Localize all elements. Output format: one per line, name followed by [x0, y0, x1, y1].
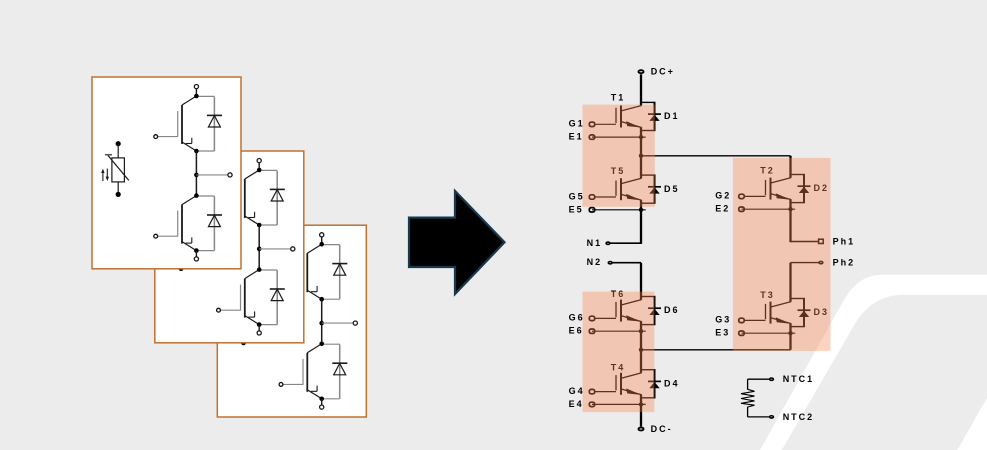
- svg-text:D1: D1: [664, 111, 680, 121]
- svg-text:NTC2: NTC2: [783, 412, 815, 422]
- svg-text:E6: E6: [569, 326, 584, 336]
- svg-text:E1: E1: [569, 132, 584, 142]
- svg-text:G3: G3: [715, 315, 731, 325]
- svg-text:D6: D6: [664, 305, 680, 315]
- svg-text:Ph2: Ph2: [833, 258, 856, 268]
- svg-text:NTC1: NTC1: [783, 374, 815, 384]
- svg-text:E5: E5: [569, 204, 584, 214]
- svg-text:D5: D5: [664, 184, 680, 194]
- svg-text:N1: N1: [587, 238, 603, 248]
- svg-text:Ph1: Ph1: [833, 237, 856, 247]
- svg-text:G4: G4: [569, 386, 585, 396]
- svg-text:E2: E2: [715, 204, 730, 214]
- svg-text:DC+: DC+: [651, 67, 675, 77]
- svg-text:G5: G5: [569, 191, 585, 201]
- svg-text:G6: G6: [569, 313, 585, 323]
- svg-text:G1: G1: [569, 119, 585, 129]
- svg-text:T1: T1: [611, 92, 626, 102]
- svg-text:E4: E4: [569, 399, 584, 409]
- svg-text:D4: D4: [664, 378, 680, 388]
- svg-text:E3: E3: [715, 328, 730, 338]
- svg-text:N2: N2: [587, 257, 603, 267]
- svg-text:G2: G2: [715, 191, 731, 201]
- svg-text:DC-: DC-: [651, 424, 673, 434]
